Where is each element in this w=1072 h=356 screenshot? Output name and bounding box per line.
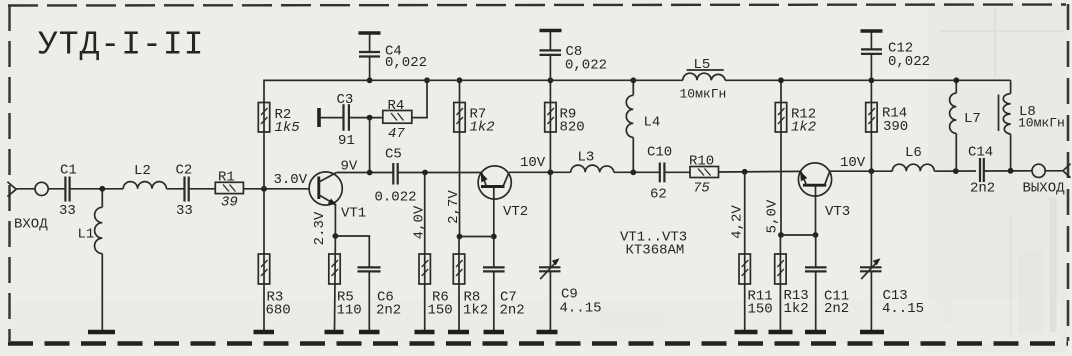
node VT3 base junction — [813, 232, 819, 238]
wire connector to edge — [1045, 170, 1063, 172]
svg-text:ВХОД: ВХОД — [14, 217, 48, 233]
ground R8 — [448, 330, 469, 334]
capacitor C14 2n2 — [968, 145, 1032, 197]
ground R11 — [735, 330, 758, 334]
node L4-C10 junction — [630, 169, 636, 175]
wire VT2 collector 10V line — [509, 155, 571, 172]
svg-text:L3: L3 — [578, 150, 595, 166]
svg-text:0,022: 0,022 — [888, 54, 930, 70]
wire 4.0V down to R6 — [412, 173, 428, 331]
label VT1..VT3 КТ368АМ — [620, 230, 687, 259]
resistor R14 390 — [866, 80, 909, 171]
svg-text:4,2V: 4,2V — [730, 205, 746, 239]
resistor R2 1k5 — [258, 80, 369, 189]
power rail top — [264, 79, 683, 81]
dashed frame border left — [8, 5, 10, 341]
wire 4.2V down to R11 — [730, 172, 746, 330]
svg-text:1k2: 1k2 — [463, 303, 488, 319]
svg-text:1k5: 1k5 — [275, 120, 301, 136]
resistor R11 150 — [739, 254, 773, 318]
svg-text:C14: C14 — [968, 145, 993, 161]
svg-text:150: 150 — [428, 303, 453, 319]
node R9 rail junction — [548, 77, 554, 83]
inductor L6 — [892, 145, 976, 171]
ground C7 — [484, 330, 505, 334]
svg-text:2.3V: 2.3V — [312, 211, 328, 245]
inductor L5 10мкГн choke in rail — [680, 57, 727, 102]
ground R3 — [254, 330, 275, 334]
wire R1 to node B — [243, 188, 309, 190]
node B junction 3.0V — [261, 172, 308, 192]
capacitor C2 33 — [176, 163, 193, 220]
svg-text:C3: C3 — [337, 92, 354, 108]
svg-text:2n2: 2n2 — [824, 301, 849, 317]
svg-text:0,022: 0,022 — [565, 58, 607, 74]
svg-text:10мкГн: 10мкГн — [1018, 116, 1065, 131]
capacitor C7 2n2 — [483, 237, 525, 331]
inductor L2 — [123, 163, 166, 189]
dashed frame border top — [8, 5, 1066, 6]
svg-text:150: 150 — [748, 302, 773, 318]
wire connector to C1 — [48, 188, 64, 190]
capacitor C1 33 — [59, 163, 77, 220]
svg-text:2n2: 2n2 — [500, 303, 525, 319]
node VT2 base junction — [491, 234, 497, 240]
node C3-R4 junction — [367, 115, 373, 121]
svg-text:R10: R10 — [689, 154, 714, 170]
svg-text:0.022: 0.022 — [375, 190, 417, 206]
svg-text:10V: 10V — [840, 155, 866, 171]
capacitor C11 2n2 — [805, 235, 849, 330]
transistor VT2 — [478, 166, 528, 237]
chassis stub for C3 — [319, 108, 343, 127]
node 10V junction — [548, 169, 554, 175]
wire VT3 collector 10V line — [830, 155, 893, 171]
resistor R1 39 — [215, 169, 243, 210]
wire base junction row — [460, 236, 494, 238]
svg-text:1k2: 1k2 — [784, 301, 809, 317]
resistor R7 1k2 — [454, 80, 495, 236]
svg-text:10V: 10V — [520, 155, 546, 171]
node R12 rail junction — [778, 77, 784, 83]
resistor R4 47 — [383, 80, 427, 142]
svg-text:5,0V: 5,0V — [765, 199, 781, 233]
svg-text:VT3: VT3 — [825, 204, 850, 220]
wire C2 to R1 — [189, 188, 216, 190]
ground R13 — [769, 330, 793, 334]
trimmer capacitor C13 4..15 — [860, 171, 924, 330]
ground C6 — [359, 330, 380, 334]
svg-text:2n2: 2n2 — [376, 303, 401, 319]
wire C1 to node A — [70, 188, 124, 190]
wire junction down to 9V node — [369, 118, 371, 173]
svg-text:VT1: VT1 — [341, 206, 366, 222]
inductor L8 10мкГн choke — [999, 80, 1065, 171]
svg-text:L1: L1 — [78, 227, 95, 243]
svg-text:4,0V: 4,0V — [412, 205, 428, 239]
node 4.0V junction — [422, 170, 428, 176]
svg-text:110: 110 — [337, 303, 362, 319]
capacitor C10 62 — [647, 145, 690, 203]
output connector circle — [1032, 164, 1045, 177]
svg-text:R4: R4 — [388, 98, 405, 114]
svg-text:39: 39 — [221, 195, 238, 211]
inductor L1 — [78, 189, 103, 330]
node R4 to rail junction — [424, 77, 430, 83]
dashed frame border right — [1067, 4, 1070, 341]
ground R5 — [325, 330, 344, 334]
node VT1 emitter junction — [333, 233, 339, 239]
wire input to connector — [16, 188, 35, 190]
bleed-through ghost marks — [600, 8, 1064, 338]
node L7 junction — [953, 168, 959, 174]
svg-text:47: 47 — [388, 126, 405, 142]
wire L2 to C2 — [166, 188, 184, 190]
resistor R13 1k2 — [775, 235, 809, 330]
node R12 base junction — [778, 232, 784, 238]
svg-text:33: 33 — [59, 203, 76, 219]
resistor R6 150 — [419, 254, 453, 319]
svg-text:10мкГн: 10мкГн — [680, 87, 727, 102]
inductor L7 — [950, 80, 981, 171]
svg-text:75: 75 — [693, 181, 710, 197]
node R7 rail junction — [457, 77, 463, 83]
svg-text:680: 680 — [266, 303, 291, 319]
capacitor C12 0,022 bypass — [861, 31, 931, 80]
svg-text:L2: L2 — [134, 163, 151, 179]
node A junction — [99, 186, 105, 192]
node R14-C13 junction — [869, 168, 875, 174]
svg-text:КТ368АМ: КТ368АМ — [626, 243, 685, 259]
inductor L3 — [571, 150, 660, 173]
ground C13 — [860, 330, 884, 334]
inductor L4 — [626, 80, 660, 172]
svg-text:390: 390 — [883, 119, 908, 135]
svg-text:4..15: 4..15 — [882, 301, 924, 317]
svg-text:91: 91 — [338, 133, 355, 149]
svg-text:L4: L4 — [644, 115, 661, 131]
resistor R5 110 — [329, 236, 362, 330]
svg-text:2n2: 2n2 — [970, 181, 995, 197]
node R14 rail junction — [869, 77, 875, 83]
svg-text:C10: C10 — [647, 145, 672, 161]
ground L1 — [88, 330, 115, 334]
node L4 rail junction — [630, 77, 636, 83]
svg-text:1k2: 1k2 — [791, 120, 816, 136]
svg-text:L5: L5 — [694, 57, 711, 73]
capacitor C5 0.022 — [375, 147, 417, 206]
svg-text:820: 820 — [560, 120, 585, 136]
node R7 base junction — [457, 234, 463, 240]
svg-text:L6: L6 — [905, 145, 922, 161]
capacitor C4 0,022 bypass — [359, 33, 428, 80]
capacitor C6 2n2 — [358, 267, 402, 330]
dashed frame border bottom — [8, 341, 1068, 346]
resistor R10 75 — [689, 154, 801, 197]
svg-text:33: 33 — [176, 203, 193, 219]
transistor VT3 — [798, 163, 850, 235]
ground C11 — [805, 330, 826, 334]
node C4 rail junction — [367, 77, 373, 83]
node 9V junction — [367, 170, 373, 176]
svg-text:0,022: 0,022 — [385, 55, 427, 71]
transistor VT1 — [309, 159, 366, 222]
wire VT3 base junction row — [781, 234, 816, 236]
power rail right section — [725, 79, 1010, 81]
svg-text:C2: C2 — [176, 163, 193, 179]
svg-text:C1: C1 — [60, 163, 77, 179]
input connector circle — [35, 182, 48, 195]
capacitor C8 0.022 bypass — [540, 31, 608, 81]
trimmer capacitor C9 4..15 — [539, 172, 602, 330]
wire emitter node to C6 — [335, 236, 369, 267]
svg-text:1k2: 1k2 — [470, 120, 495, 136]
svg-text:ВЫХОД: ВЫХОД — [1023, 181, 1066, 197]
resistor R8 1k2 — [453, 237, 488, 331]
node R11 junction — [742, 169, 748, 175]
output chevron ВЫХОД — [1023, 164, 1071, 197]
ground C9 — [537, 330, 558, 334]
ground R6 — [415, 330, 435, 334]
capacitor C3 91 — [337, 92, 383, 149]
svg-text:VT2: VT2 — [503, 204, 528, 220]
wire VT1 emitter down 2.3V — [312, 205, 335, 246]
input chevron ВХОД — [7, 182, 48, 233]
resistor R9 820 — [545, 80, 585, 172]
node L8 output junction — [1008, 168, 1014, 174]
wire VT1 collector 9V line — [337, 172, 394, 174]
svg-text:2,7V: 2,7V — [446, 190, 462, 224]
resistor R3 680 — [258, 189, 290, 330]
svg-text:4..15: 4..15 — [560, 301, 602, 317]
svg-text:C5: C5 — [385, 147, 402, 163]
svg-text:L7: L7 — [964, 111, 981, 127]
svg-text:УТД-I-II: УТД-I-II — [38, 27, 204, 64]
node L7 rail junction — [953, 77, 959, 83]
svg-text:R1: R1 — [218, 169, 235, 185]
wire C5 to VT2 emitter — [398, 172, 482, 174]
svg-text:3.0V: 3.0V — [274, 172, 308, 188]
resistor R12 1k2 — [775, 80, 816, 235]
svg-text:62: 62 — [650, 187, 667, 203]
